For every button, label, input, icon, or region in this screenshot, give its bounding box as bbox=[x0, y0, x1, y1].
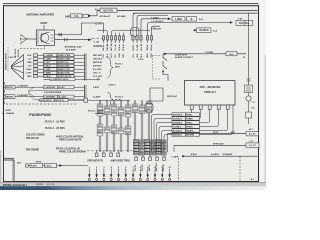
svg-text:BRN/W: BRN/W bbox=[6, 97, 13, 99]
svg-text:AU22: AU22 bbox=[6, 109, 12, 112]
wire label box ILL ST bbox=[246, 131, 259, 136]
svg-text:PLUG 1: PLUG 1 bbox=[115, 64, 124, 66]
svg-text:GRN: GRN bbox=[126, 106, 131, 108]
svg-text:PIN COLFS: PIN COLFS bbox=[26, 137, 39, 140]
svg-text:GRN: GRN bbox=[161, 141, 166, 143]
svg-text:1 GRY: 1 GRY bbox=[26, 73, 33, 75]
svg-text:MAST: MAST bbox=[41, 22, 49, 25]
svg-text:2 GRN/WHT: 2 GRN/WHT bbox=[44, 87, 56, 89]
svg-text:GRN: GRN bbox=[112, 105, 117, 107]
svg-text:GRN: GRN bbox=[98, 105, 103, 107]
pin up stubs bbox=[115, 33, 117, 36]
svg-text:VIO: VIO bbox=[115, 54, 117, 58]
arrowhead bbox=[194, 29, 197, 31]
svg-text:REM ON: REM ON bbox=[163, 163, 165, 171]
svg-text:GRN: GRN bbox=[150, 141, 155, 143]
svg-text:GRN: GRN bbox=[139, 141, 144, 143]
wire dashed drop left bbox=[178, 158, 180, 181]
svg-text:GND: GND bbox=[27, 76, 32, 78]
svg-text:10A: 10A bbox=[74, 15, 79, 18]
svg-text:C-147: C-147 bbox=[96, 22, 103, 25]
wire color label rows center-right bbox=[172, 113, 186, 116]
svg-text:FRND ALT: FRND ALT bbox=[204, 91, 216, 94]
svg-text:AUDIO SYSTEM: AUDIO SYSTEM bbox=[5, 53, 8, 70]
svg-text:AMP B+: AMP B+ bbox=[148, 164, 151, 171]
svg-text:PLUG 2: PLUG 2 bbox=[115, 97, 124, 99]
svg-text:SPKR FL: SPKR FL bbox=[56, 100, 65, 102]
svg-text:PW/50/PW80: PW/50/PW80 bbox=[29, 113, 52, 117]
svg-text:GRN: GRN bbox=[134, 141, 139, 143]
svg-text:BLK: BLK bbox=[27, 55, 32, 57]
wire switch drop bbox=[163, 72, 168, 80]
switch symbol chain S1 bbox=[163, 54, 167, 71]
svg-text:AMP GND: AMP GND bbox=[155, 162, 158, 171]
wire B+ top bus bbox=[97, 10, 258, 12]
wires from rows to left bundle bbox=[152, 115, 173, 153]
svg-text:GRN: GRN bbox=[27, 62, 32, 64]
svg-text:BLK/YEL: BLK/YEL bbox=[103, 9, 114, 12]
svg-text:RED/BLK: RED/BLK bbox=[173, 135, 183, 137]
wire right drop bbox=[248, 13, 250, 85]
svg-text:BRN: BRN bbox=[147, 53, 149, 58]
svg-text:RADIO CLK: RADIO CLK bbox=[58, 68, 70, 71]
svg-text:P.ANT: P.ANT bbox=[59, 86, 66, 89]
svg-text:P.ANT: P.ANT bbox=[93, 86, 100, 89]
wire long to right box bbox=[151, 22, 231, 24]
svg-text:YEL/BLK: YEL/BLK bbox=[199, 30, 209, 32]
svg-text:CDP – RECEIVER: CDP – RECEIVER bbox=[200, 86, 221, 89]
svg-text:WHT/BLK: WHT/BLK bbox=[173, 115, 183, 117]
group2 faint rows bbox=[34, 89, 84, 91]
wire antenna to amp bbox=[27, 38, 36, 40]
svg-text:1.5 YEL/BLK: 1.5 YEL/BLK bbox=[151, 21, 164, 23]
radio connector J1 pin row bbox=[102, 36, 104, 40]
wire label box ILL ST 2 bbox=[246, 143, 259, 148]
blue gradient bar bbox=[0, 186, 266, 190]
connector pair right bbox=[247, 79, 251, 81]
brace plug1 bbox=[108, 57, 114, 78]
svg-text:ANTENNA LEAD: ANTENNA LEAD bbox=[65, 46, 83, 49]
svg-text:C-801 18: C-801 18 bbox=[8, 57, 16, 59]
svg-text:NCA/MAX: NCA/MAX bbox=[223, 153, 233, 156]
svg-text:ILL ST: ILL ST bbox=[249, 134, 256, 136]
dashed connector line bbox=[87, 150, 133, 152]
svg-text:SPEAKER FR: SPEAKER FR bbox=[87, 160, 103, 163]
wire bottom left row bbox=[25, 165, 88, 167]
svg-text:FRNR: FRNR bbox=[187, 127, 193, 129]
wire SPKR AUX bbox=[174, 144, 246, 146]
svg-text:PWR COLOR WHTE: PWR COLOR WHTE bbox=[59, 139, 82, 142]
svg-text:WHT: WHT bbox=[115, 67, 121, 69]
svg-text:GND2: GND2 bbox=[147, 45, 149, 50]
svg-text:ILL GRN: ILL GRN bbox=[93, 69, 102, 71]
wire mast stub bbox=[43, 25, 45, 30]
svg-text:GND BL: GND BL bbox=[107, 43, 109, 51]
bus group2 bbox=[84, 85, 86, 101]
svg-text:1 BRN: 1 BRN bbox=[44, 73, 51, 75]
harness fan group 1 bbox=[23, 55, 25, 80]
svg-text:BRN: BRN bbox=[150, 154, 155, 156]
svg-text:MUTE: MUTE bbox=[133, 45, 135, 51]
wire amp upper output bbox=[55, 23, 104, 35]
wire alarm to right bbox=[166, 53, 246, 55]
svg-text:BRN: BRN bbox=[139, 154, 144, 156]
svg-text:GRN: GRN bbox=[140, 106, 145, 108]
wires CD pins to label rows bbox=[190, 113, 200, 115]
wire row group2 WHT/R bbox=[6, 85, 16, 89]
wire fan from connector pins to right busses bbox=[133, 13, 258, 27]
fuse F1 10A bbox=[71, 14, 83, 18]
svg-text:ILL ST: ILL ST bbox=[249, 145, 256, 147]
svg-text:ANTENNA AMPLIFIER: ANTENNA AMPLIFIER bbox=[26, 13, 54, 17]
svg-text:BLUE: BLUE bbox=[115, 100, 121, 102]
svg-text:RADIO ILL: RADIO ILL bbox=[58, 61, 69, 64]
wire drop from STOP bbox=[167, 134, 169, 152]
svg-text:SPK-L: SPK-L bbox=[119, 44, 121, 51]
svg-text:AMP: AMP bbox=[65, 15, 71, 18]
wire 1.5 BLK bbox=[150, 15, 168, 17]
svg-text:TRBR: TRBR bbox=[187, 119, 193, 121]
wire down from motor bbox=[248, 101, 250, 112]
svg-text:C-2: C-2 bbox=[252, 102, 255, 104]
svg-text:1.5 BLK: 1.5 BLK bbox=[151, 17, 159, 19]
outer top rule bbox=[3, 3, 259, 5]
svg-text:REARL: REARL bbox=[187, 130, 195, 133]
svg-text:2 GRN/RED: 2 GRN/RED bbox=[17, 95, 28, 97]
svg-text:1 GRN/R: 1 GRN/R bbox=[44, 55, 53, 57]
svg-text:2 BLU: 2 BLU bbox=[45, 166, 52, 168]
svg-text:2 BLU/GRN SPARE: 2 BLU/GRN SPARE bbox=[44, 91, 62, 94]
svg-text:1 BLU: 1 BLU bbox=[44, 66, 51, 68]
wire dash-dot lead bbox=[92, 37, 104, 39]
CD receiver U2 box bbox=[185, 81, 236, 106]
svg-text:4 BLU/WHT: 4 BLU/WHT bbox=[41, 99, 53, 102]
wire label box YEL/BLK bbox=[197, 28, 212, 33]
svg-text:2 GRN/WHT: 2 GRN/WHT bbox=[17, 85, 29, 87]
wire 1.5 BLK/R (merged with fan) bbox=[150, 29, 194, 31]
box corner near radio bbox=[150, 88, 163, 101]
wire label box B+2 bbox=[226, 52, 237, 56]
svg-text:IN & AMP: IN & AMP bbox=[66, 48, 76, 51]
svg-text:2.5 SHLD: 2.5 SHLD bbox=[15, 48, 17, 57]
svg-text:VIO: VIO bbox=[28, 66, 32, 68]
fuse holder bbox=[83, 14, 88, 17]
svg-text:AMPLIFIER TRBL: AMPLIFIER TRBL bbox=[110, 160, 130, 163]
svg-text:FRNL: FRNL bbox=[187, 123, 193, 125]
svg-text:SPK RL: SPK RL bbox=[135, 164, 137, 171]
svg-text:C-810: C-810 bbox=[138, 59, 144, 61]
svg-text:NO MAX: NO MAX bbox=[117, 15, 126, 18]
arrowhead bbox=[88, 39, 91, 41]
svg-text:BRN: BRN bbox=[126, 133, 131, 135]
svg-text:GRN: GRN bbox=[145, 141, 150, 143]
bottom strip bbox=[0, 183, 266, 187]
svg-text:ANT TR: ANT TR bbox=[110, 43, 113, 51]
svg-text:BRN: BRN bbox=[112, 132, 117, 134]
wire drop from SPKR bbox=[173, 145, 175, 152]
arrowhead fuse bbox=[89, 15, 92, 17]
svg-text:VIO/BLK: VIO/BLK bbox=[173, 127, 182, 129]
svg-text:RADIO GND: RADIO GND bbox=[58, 58, 71, 61]
short wire stub mid pairs bbox=[95, 113, 104, 115]
transistor symbol inside amp bbox=[42, 33, 50, 44]
group2 fan diagonals bbox=[28, 87, 34, 100]
svg-text:BRN: BRN bbox=[161, 154, 166, 156]
paper background bbox=[0, 0, 266, 190]
stacked wire color boxes bbox=[97, 104, 103, 107]
vertical speaker wire pairs bbox=[98, 100, 100, 152]
small box right chain bbox=[246, 112, 252, 118]
oval connector on pair 8 bbox=[145, 103, 153, 112]
corner title box bbox=[4, 157, 15, 159]
wire amp lower output bbox=[55, 39, 89, 41]
svg-text:GRY/BLK: GRY/BLK bbox=[173, 119, 183, 121]
svg-text:GRN: GRN bbox=[119, 53, 121, 58]
svg-text:DIM IL: DIM IL bbox=[151, 44, 153, 51]
svg-text:SOME WITH: SOME WITH bbox=[175, 54, 188, 56]
svg-text:M: M bbox=[243, 57, 245, 59]
wire fuse riser bbox=[91, 11, 97, 16]
lamp component above connector bbox=[131, 28, 139, 37]
svg-text:ACC IG: ACC IG bbox=[140, 44, 143, 51]
svg-text:RADIO ANT: RADIO ANT bbox=[58, 65, 71, 68]
wire label box B bbox=[187, 17, 197, 21]
svg-text:SPK RR: SPK RR bbox=[142, 164, 144, 171]
svg-text:1 GRN: 1 GRN bbox=[44, 59, 51, 61]
svg-text:STOP: STOP bbox=[213, 132, 219, 134]
svg-text:1 VIO: 1 VIO bbox=[44, 62, 50, 64]
svg-text:2 GRN/RED: 2 GRN/RED bbox=[44, 97, 55, 99]
CD receiver pins bbox=[190, 105, 193, 110]
antenna symbol bbox=[21, 34, 28, 45]
bottom arrow pin row bbox=[88, 169, 90, 178]
svg-text:RMT ANT: RMT ANT bbox=[93, 54, 103, 57]
component right box bbox=[245, 85, 253, 93]
wire dashed below amp bbox=[20, 48, 45, 50]
svg-text:4 BLK: 4 BLK bbox=[191, 153, 198, 156]
svg-text:ANTW BL: ANTW BL bbox=[93, 61, 103, 64]
border frame bbox=[4, 6, 259, 182]
dashed box around alarm switch bbox=[153, 56, 161, 80]
svg-text:RG-62 A: RG-62 A bbox=[17, 49, 20, 57]
wire dashed drop right bbox=[239, 156, 241, 181]
svg-text:C-146: C-146 bbox=[94, 40, 101, 43]
wire label box BLK/YEL bbox=[100, 8, 117, 12]
svg-text:GRN/BLK: GRN/BLK bbox=[173, 123, 183, 125]
svg-text:SW-B+: SW-B+ bbox=[103, 44, 105, 51]
svg-text:RADIO DTA: RADIO DTA bbox=[58, 72, 70, 75]
arrowhead left bbox=[183, 155, 186, 157]
svg-text:ANT/W 2: ANT/W 2 bbox=[93, 65, 102, 68]
svg-text:GRN: GRN bbox=[133, 105, 138, 107]
svg-text:CLK GRY: CLK GRY bbox=[93, 76, 103, 78]
wire label box 1 RED bbox=[172, 17, 185, 21]
pins row 1 right cluster bbox=[135, 156, 137, 158]
svg-text:GRN: GRN bbox=[119, 108, 124, 110]
svg-text:BRN: BRN bbox=[156, 153, 161, 155]
svg-text:ILL+ D: ILL+ D bbox=[115, 44, 117, 50]
svg-text:ALARM CONTACT: ALARM CONTACT bbox=[175, 56, 194, 59]
svg-text:RADIO PWR: RADIO PWR bbox=[58, 54, 71, 57]
svg-text:PLUG 1 - 16 PAS: PLUG 1 - 16 PAS bbox=[45, 120, 65, 123]
svg-text:1 GRY: 1 GRY bbox=[44, 69, 51, 71]
svg-text:1 BLK: 1 BLK bbox=[26, 69, 32, 71]
svg-text:SPK-R: SPK-R bbox=[123, 44, 125, 51]
svg-text:ILL/BLK: ILL/BLK bbox=[211, 154, 219, 156]
wire horizontal group3 bbox=[38, 99, 130, 101]
connector pair lower bbox=[64, 38, 67, 41]
svg-text:P.ILL VI: P.ILL VI bbox=[93, 73, 101, 75]
brace plug2 bbox=[108, 92, 114, 107]
svg-text:GND BLK: GND BLK bbox=[93, 59, 103, 61]
wire label box right bbox=[236, 20, 253, 25]
wire ILL/BLK bottom right bbox=[185, 155, 258, 157]
svg-text:BRN: BRN bbox=[98, 131, 103, 133]
box divider bbox=[243, 20, 245, 25]
svg-text:A+/ANT: A+/ANT bbox=[93, 96, 101, 99]
svg-text:PLUG 2 - 20 PAS: PLUG 2 - 20 PAS bbox=[45, 127, 65, 130]
left edge artifact bbox=[0, 150, 2, 190]
svg-text:BLU/BLK: BLU/BLK bbox=[173, 131, 183, 133]
right page edge artifact bbox=[264, 55, 266, 186]
svg-text:RADIO: RADIO bbox=[94, 44, 102, 48]
svg-text:BRN: BRN bbox=[145, 153, 150, 155]
svg-text:WHT/R: WHT/R bbox=[6, 87, 13, 89]
svg-text:BLU: BLU bbox=[141, 53, 143, 58]
svg-text:ATO/B+AT: ATO/B+AT bbox=[100, 15, 111, 18]
svg-text:PIN CRBNE: PIN CRBNE bbox=[26, 149, 40, 152]
connector pair upper bbox=[59, 33, 62, 36]
arrowhead bbox=[168, 18, 171, 20]
svg-text:GRN: GRN bbox=[105, 107, 110, 109]
svg-text:1.5 BLK/R: 1.5 BLK/R bbox=[151, 28, 161, 30]
svg-text:RED: RED bbox=[137, 53, 139, 58]
amplifier box U1 bbox=[36, 30, 54, 45]
svg-text:1 RED: 1 RED bbox=[175, 19, 182, 21]
arrowhead row bbox=[60, 165, 63, 167]
svg-text:B - CHAN23: B - CHAN23 bbox=[3, 112, 16, 115]
svg-text:1.5 BRN: 1.5 BRN bbox=[205, 52, 213, 54]
dense stacked boxes bottom center bbox=[133, 140, 138, 143]
wire second top bus bbox=[133, 12, 258, 14]
svg-text:PWRC COLOR BROWN: PWRC COLOR BROWN bbox=[59, 151, 86, 154]
wire row group2 BRN/W bbox=[6, 95, 16, 99]
svg-text:C-802 1: C-802 1 bbox=[108, 85, 117, 87]
svg-text:TRBL: TRBL bbox=[187, 115, 193, 117]
svg-text:BRN: BRN bbox=[134, 153, 139, 155]
svg-text:SPKR ALT: SPKR ALT bbox=[167, 95, 178, 98]
extra row 8 bbox=[44, 78, 100, 80]
dashed option box bbox=[5, 83, 79, 105]
wire STOP AUX bbox=[168, 133, 247, 135]
svg-text:P.ANT: P.ANT bbox=[31, 165, 38, 168]
arrowhead bbox=[230, 22, 233, 24]
arrowhead alarm bbox=[164, 53, 167, 55]
svg-text:SPKR AUX: SPKR AUX bbox=[213, 142, 224, 145]
svg-text:A+/ANT: A+/ANT bbox=[59, 96, 67, 99]
svg-text:AUX: AUX bbox=[231, 131, 236, 134]
motor M symbol bbox=[246, 96, 251, 101]
svg-text:B+ BA: B+ BA bbox=[136, 44, 139, 50]
svg-text:C-WFR: C-WFR bbox=[172, 156, 179, 158]
svg-text:1 GRN/WHT MUTE: 1 GRN/WHT MUTE bbox=[51, 79, 69, 81]
svg-text:PLUG 1: 16-PIN: PLUG 1: 16-PIN bbox=[88, 110, 104, 112]
connector bus vertical group1 bbox=[84, 54, 86, 81]
